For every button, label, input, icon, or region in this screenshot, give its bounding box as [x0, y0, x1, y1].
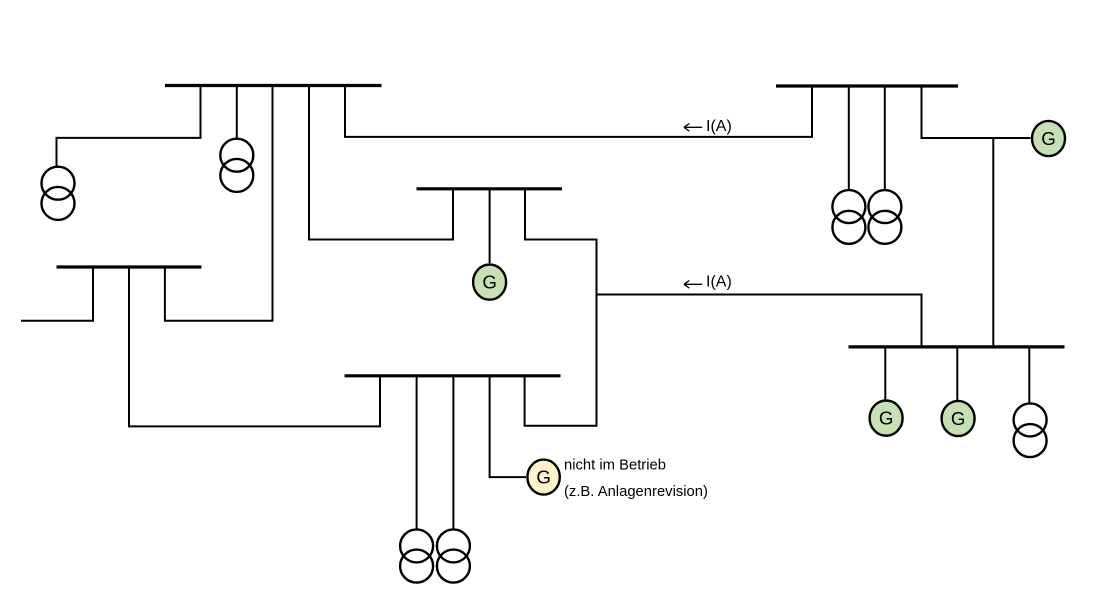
generator G1	[473, 265, 506, 300]
busbar B2 middle	[417, 187, 563, 190]
generator G4	[942, 401, 975, 436]
wire junction to busbar B6 long vertical	[992, 138, 994, 347]
wire B4 to transformer T4	[416, 376, 418, 529]
svg-text:G: G	[879, 408, 894, 429]
generator G3	[870, 401, 903, 436]
wire B6 to generator G3	[884, 347, 886, 400]
wire B5 to generator G2	[922, 86, 1031, 138]
wire B1 to busbar B2	[309, 86, 453, 240]
label I(A) 2 arrow	[684, 281, 702, 289]
generator G5 out of service	[527, 460, 559, 495]
svg-text:I(A): I(A)	[706, 274, 732, 291]
wire B1 drop to node A	[57, 86, 201, 167]
transformer T8	[1014, 403, 1047, 457]
wire B6 to transformer T8	[1028, 347, 1030, 403]
busbar B6 bottom-right	[849, 345, 1065, 348]
busbar B4 bottom-middle	[345, 374, 561, 377]
wire B3 to busbar B4	[129, 267, 380, 426]
busbar B3 left-middle	[57, 265, 202, 268]
svg-text:I(A): I(A)	[706, 118, 732, 135]
transformer T7	[868, 190, 901, 244]
wire B1 to transformer T2	[236, 86, 238, 139]
svg-text:G: G	[1041, 128, 1056, 149]
svg-text:G: G	[951, 408, 966, 429]
transformer T2	[220, 139, 253, 192]
transformer T5	[437, 529, 470, 582]
wire B6 to generator G4	[956, 347, 958, 400]
svg-text:(z.B. Anlagenrevision): (z.B. Anlagenrevision)	[564, 484, 708, 500]
generator G2	[1032, 121, 1065, 156]
wire B5 to transformer T6	[848, 86, 850, 189]
busbar B5 top-right	[776, 84, 958, 87]
wire B1 to busbar B3 via long vertical	[165, 86, 273, 321]
busbar B1 top-left	[165, 84, 382, 87]
wire B3 stub to left edge	[21, 267, 93, 321]
transformer T6	[832, 190, 865, 244]
wire I(A) feeder 2 from node to B6	[597, 295, 922, 347]
svg-text:nicht im Betrieb: nicht im Betrieb	[564, 458, 666, 474]
transformer T1	[42, 167, 75, 220]
wire B4 to generator G5 (out of service)	[490, 376, 526, 477]
wire B2 to busbar B4 via right path	[525, 189, 597, 426]
wire I(A) feeder 1 from B1 to B5	[345, 86, 812, 137]
transformer T4	[400, 529, 433, 582]
wire B2 to generator G1	[489, 189, 491, 263]
label I(A) 1 arrow	[684, 124, 702, 132]
wire B5 to transformer T7	[884, 86, 886, 189]
wire B4 to transformer T5	[452, 376, 454, 529]
svg-text:G: G	[482, 272, 497, 293]
svg-text:G: G	[536, 467, 551, 488]
